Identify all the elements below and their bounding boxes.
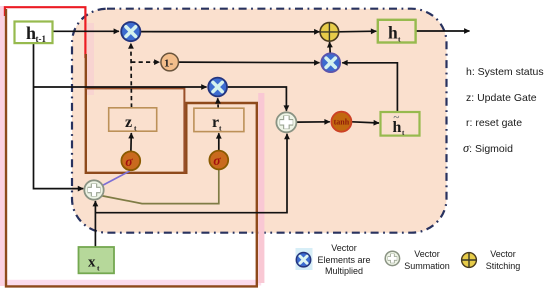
svg-text:h: h — [388, 23, 398, 43]
brown annotation path (big box with notch around r_t) — [6, 9, 257, 286]
svg-text:σ: σ — [125, 154, 133, 169]
wire: sigma_r up to r_t — [218, 133, 220, 150]
svg-text:tanh: tanh — [334, 118, 350, 127]
wire: x_t branch right and up into summation 2 — [95, 134, 287, 213]
box h_t — [378, 20, 416, 44]
legend stitching text — [486, 249, 521, 271]
box z_t — [109, 108, 157, 133]
X3 multiply circle — [321, 53, 340, 72]
wire: candidate h up and left into X3 — [342, 63, 397, 112]
svg-text:Vector: Vector — [414, 249, 440, 259]
wire: tanh to candidate h box — [352, 122, 379, 123]
sigma_z circle — [121, 151, 140, 170]
wire: dashed branch to 1- circle — [131, 61, 159, 63]
X1 multiply circle — [121, 22, 140, 41]
wire: x_t up to summation 1 — [94, 201, 96, 247]
svg-text:σ: σ — [213, 153, 221, 168]
legend summation text — [404, 249, 450, 271]
svg-text:z: Update Gate: z: Update Gate — [466, 92, 537, 104]
wire: olive from sigma_r down and left to summation 1 — [101, 170, 219, 204]
legend multiply text — [317, 243, 370, 276]
svg-text:h: System status: h: System status — [466, 66, 544, 78]
box h_t-1 — [15, 22, 53, 44]
svg-text:z: z — [125, 114, 132, 131]
1- circle — [161, 53, 179, 71]
pink ghost band right — [258, 93, 264, 283]
wire: 1- circle to X3 — [179, 61, 320, 64]
summation circle 1 — [84, 180, 103, 199]
wire: X3 up to yellow stitch — [329, 42, 332, 53]
brown annotation box around z_t — [86, 88, 185, 172]
pink ghost band left — [0, 6, 5, 286]
svg-text:~: ~ — [394, 112, 400, 124]
svg-text:Summation: Summation — [404, 261, 450, 271]
wire: summation 2 to tanh — [297, 121, 330, 123]
wire: X1 to yellow stitch circle — [141, 31, 320, 33]
wire: h branch to X2 — [34, 86, 207, 88]
wire: purple from summation 1 to sigma_z — [100, 171, 130, 187]
pink ghost band inner (right of red box) — [87, 23, 94, 95]
wire: sigma_z up to z_t — [130, 133, 132, 151]
wire: h_t-1 bottom vertical branch — [34, 43, 84, 188]
GRU cell body (rounded dash-dot boundary with peach fill) — [72, 9, 447, 233]
legend multiply circle — [296, 253, 310, 267]
box candidate h (h tilde) — [381, 112, 420, 138]
box r_t — [194, 108, 244, 132]
svg-text:r: reset gate: r: reset gate — [466, 117, 522, 129]
tanh circle — [331, 112, 351, 132]
right side legend text — [463, 66, 544, 155]
sigma_r circle — [209, 151, 228, 170]
red annotation box (top-left, open bottom) — [5, 7, 86, 58]
legend stitching circle — [462, 253, 477, 268]
wire: h_t-1 right to X1 — [53, 30, 120, 32]
svg-text:Vector: Vector — [490, 249, 516, 259]
svg-text:x: x — [88, 255, 96, 271]
X2 multiply circle — [208, 78, 227, 97]
svg-text:Elements are: Elements are — [317, 255, 370, 265]
svg-text:1-: 1- — [164, 58, 174, 70]
wire: r_t dashed up to X2 — [217, 98, 220, 108]
yellow stitching circle — [320, 23, 339, 42]
wire: h_t output arrow — [416, 30, 470, 32]
svg-text:Stitching: Stitching — [486, 261, 521, 271]
legend summation circle — [385, 251, 399, 265]
box x_t — [79, 247, 115, 273]
svg-text:Multiplied: Multiplied — [325, 266, 363, 276]
pink ghost band bottom — [5, 280, 262, 286]
svg-text:σ: Sigmoid: σ: Sigmoid — [463, 141, 513, 155]
wire: X2 output to summation 2 — [227, 87, 286, 111]
wire: z_t dashed up to X1 — [130, 43, 133, 107]
svg-text:Vector: Vector — [331, 243, 357, 253]
legend: blue square artifact — [296, 248, 313, 270]
svg-text:t-1: t-1 — [36, 34, 47, 44]
summation circle 2 — [276, 112, 296, 132]
wire: yellow stitch to h_t box — [338, 30, 376, 33]
svg-text:h: h — [26, 23, 36, 43]
